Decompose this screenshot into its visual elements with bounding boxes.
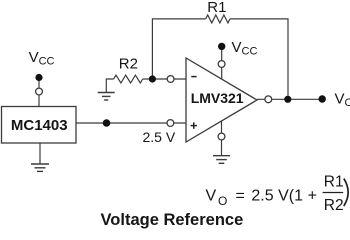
svg-text:R1: R1 (207, 0, 226, 16)
wire op-amp output to VO terminal (257, 98, 322, 100)
pin circle op-amp noninverting input (167, 120, 174, 127)
pin circle op-amp negative supply pin (218, 133, 225, 140)
pin circle op-amp inverting input (167, 76, 174, 83)
junction dot on 2.5 V net (103, 119, 111, 127)
wire op-amp negative supply pin to ground (221, 121, 223, 156)
wire top run right of R1 and feedback right vertical down to output node (230, 19, 288, 99)
wire MC1403 output to op-amp noninverting input (2.5 V net) (76, 122, 186, 124)
wire MC1403 bottom to ground (39, 143, 41, 164)
svg-text:R2: R2 (119, 56, 138, 73)
power terminal VCC (left) dot (35, 74, 42, 81)
terminal dot VO (319, 95, 326, 102)
formula VO = 2.5 V(1 + R1/R2) (206, 174, 349, 215)
resistor R1 (206, 15, 230, 23)
svg-text:V: V (206, 188, 217, 205)
wire VCC supply to MC1403 pin (38, 78, 40, 107)
svg-text:O: O (218, 194, 227, 208)
wire R2 right end to op-amp inverting input (143, 78, 186, 80)
svg-text:+: + (308, 188, 317, 205)
wire R2 left end to ground corner (106, 79, 113, 93)
svg-text:2.5 V: 2.5 V (143, 129, 176, 145)
svg-text:Voltage Reference: Voltage Reference (101, 211, 244, 229)
pin circle op-amp VCC pin (218, 61, 225, 68)
svg-text:=: = (236, 188, 245, 205)
svg-text:R1: R1 (324, 174, 344, 191)
junction dot inverting node (149, 75, 156, 82)
svg-text:R2: R2 (324, 197, 344, 214)
ground (left of R2) (98, 93, 115, 101)
ground (op-amp negative supply) (213, 156, 230, 164)
svg-text:LMV321: LMV321 (191, 90, 244, 106)
op-amp U2 LMV321 (186, 58, 257, 142)
IC U1 MC1403 voltage reference (2, 107, 77, 144)
svg-text:MC1403: MC1403 (11, 117, 68, 134)
op-amp noninverting input sign (191, 125, 197, 127)
op-amp inverting input sign (191, 76, 196, 78)
wire feedback left vertical and top run to R1 (152, 19, 205, 79)
junction dot output/feedback node (284, 96, 291, 103)
power terminal VCC (op-amp) dot (218, 43, 225, 50)
wire op-amp VCC pin (221, 46, 223, 79)
svg-text:2.5 V(1: 2.5 V(1 (251, 188, 303, 205)
ground (below MC1403) (31, 164, 49, 171)
resistor R2 (114, 75, 143, 83)
pin circle op-amp output (265, 96, 272, 103)
pin circle MC1403 VCC pin (36, 88, 43, 95)
